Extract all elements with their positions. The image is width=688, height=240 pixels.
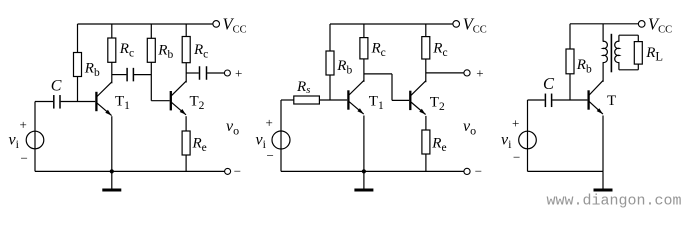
svg-text:Rc: Rc: [193, 42, 208, 61]
ground symbol circuit 3: [602, 171, 604, 189]
wire: T collector up to primary: [602, 62, 604, 82]
transformer primary winding: [602, 24, 604, 42]
wire: vi to Rs: [281, 99, 294, 101]
svg-text:C: C: [51, 78, 62, 95]
capacitor C3 output: [199, 66, 201, 80]
wire: Rc1 to rail: [111, 24, 113, 38]
wire: circuit 3 bottom rail: [528, 170, 604, 172]
svg-text:VCC: VCC: [223, 15, 247, 36]
source vi circuit 3: [519, 131, 537, 149]
resistor Re body circuit 1: [182, 131, 190, 155]
terminal vo- circuit 2: [464, 168, 470, 174]
svg-text:+: +: [235, 66, 242, 81]
ground symbol circuit 2: [363, 171, 365, 189]
transistor T2 circuit 2: [409, 91, 411, 110]
svg-text:T2: T2: [430, 94, 445, 113]
wire: Rb1 top from rail: [77, 24, 79, 53]
capacitor C circuit 3: [544, 94, 546, 108]
wire: Rc2 to rail c2: [425, 24, 427, 37]
wire: output tap: [186, 72, 199, 74]
svg-text:+: +: [20, 117, 27, 132]
wire: Rb1 bottom to base node: [77, 77, 79, 102]
wire: Rb top from rail c3: [569, 24, 571, 49]
resistor Rc2 body circuit 2: [422, 37, 430, 59]
wire: T1 collector up c2: [363, 59, 365, 82]
wire: Re to ground rail: [185, 155, 187, 171]
svg-text:−: −: [267, 148, 274, 163]
resistor Rb2 body: [147, 38, 155, 62]
wire: circuit 1 bottom rail: [35, 170, 225, 172]
terminal VCC circuit 3: [638, 21, 645, 28]
wire: circuit 2 bottom rail: [281, 170, 464, 172]
source vi circuit 1: [26, 131, 44, 149]
wire: RL top drop: [637, 35, 639, 41]
svg-text:vi: vi: [9, 132, 20, 152]
resistor RL body: [634, 42, 642, 65]
wire: T emitter down c3: [602, 116, 604, 172]
terminal vo+ circuit 2: [464, 70, 470, 76]
wire: secondary top to RL: [619, 34, 638, 36]
resistor Rc2 body: [182, 37, 190, 63]
wire: T2 collector up: [185, 63, 187, 83]
wire: vi vertical circuit 1: [34, 102, 36, 172]
wire: to T2 base: [392, 99, 409, 101]
terminal VCC circuit 1: [213, 21, 220, 28]
svg-text:−: −: [234, 164, 241, 179]
svg-text:RL: RL: [645, 45, 663, 64]
wire: down to T2 base level: [391, 74, 393, 101]
svg-text:Rc: Rc: [371, 41, 386, 60]
terminal vo- circuit 1: [225, 168, 231, 174]
svg-text:+: +: [512, 116, 519, 131]
wire: C1 input left wire: [35, 101, 53, 103]
ground symbol circuit 1: [111, 171, 113, 189]
transistor T2 circuit 1: [170, 91, 172, 110]
wire: vi vertical circuit 3: [527, 100, 529, 171]
wire: Rb2 down to T2 base: [150, 62, 152, 100]
resistor Rb body circuit 2: [326, 51, 334, 75]
svg-text:vo: vo: [226, 118, 239, 138]
transistor T circuit 3: [587, 90, 589, 109]
svg-text:T: T: [607, 93, 616, 109]
svg-text:C: C: [543, 74, 555, 93]
wire: vi vertical circuit 2: [280, 100, 282, 171]
resistor Rs body: [294, 96, 320, 104]
svg-text:T1: T1: [115, 94, 130, 113]
wire: Rc1 to rail c2: [363, 24, 365, 38]
wire: T1 emitter down: [111, 116, 113, 171]
wire: circuit 3 VCC top rail: [570, 23, 639, 25]
junction dot T1 emitter at rail: [110, 169, 114, 173]
transformer core: [610, 34, 612, 73]
svg-text:www.diangon.com: www.diangon.com: [547, 193, 682, 210]
capacitor C2 interstage: [126, 68, 128, 82]
svg-text:vi: vi: [256, 132, 267, 152]
resistor Rc1 body circuit 2: [360, 38, 368, 59]
wire: T1 emitter down c2: [363, 116, 365, 172]
junction dot T1 emitter rail c2: [362, 169, 366, 173]
wire: Rc2 to rail: [185, 24, 187, 37]
capacitor C1 input: [53, 95, 55, 109]
wire: Re to rail c2: [425, 154, 427, 171]
wire: circuit 2 VCC top rail: [330, 23, 453, 25]
wire: interstage tap: [112, 74, 127, 76]
svg-text:Re: Re: [431, 135, 446, 154]
wire: base wire to T c3: [552, 99, 587, 101]
svg-text:vo: vo: [463, 118, 476, 138]
wire: Rb bottom to base node c2: [329, 75, 331, 100]
resistor Re body circuit 2: [422, 130, 430, 154]
resistor Rb1 body: [74, 53, 82, 77]
svg-text:−: −: [513, 150, 520, 165]
wire: circuit 1 VCC top rail: [78, 23, 214, 25]
wire: T2 emitter to Re c2: [425, 116, 427, 130]
svg-text:VCC: VCC: [648, 15, 672, 36]
wire: base wire to T2: [151, 100, 169, 102]
wire: output wire c2: [426, 72, 464, 74]
svg-text:Re: Re: [192, 136, 207, 155]
wire: Rb bottom to base node c3: [569, 74, 571, 100]
wire: Rb2 top from rail: [150, 24, 152, 38]
wire: RL bottom to secondary: [619, 69, 638, 71]
wire: base wire to T1: [61, 101, 96, 103]
svg-text:Rs: Rs: [296, 79, 310, 96]
svg-text:−: −: [475, 164, 482, 179]
wire: cap to output terminal: [207, 72, 224, 74]
wire: T2 collector up c2: [425, 59, 427, 82]
svg-text:+: +: [476, 66, 483, 81]
wire: RL bottom drop: [637, 64, 639, 70]
wire: T2 emitter down to Re: [185, 116, 187, 131]
wire: C input left wire c3: [528, 99, 545, 101]
svg-text:−: −: [21, 151, 28, 166]
svg-text:T2: T2: [190, 94, 205, 113]
source vi circuit 2: [272, 131, 290, 149]
svg-text:Rc: Rc: [432, 41, 447, 60]
transistor T1 circuit 2: [347, 90, 349, 109]
svg-text:Rb: Rb: [157, 42, 173, 61]
terminal vo+ circuit 1: [224, 70, 230, 76]
svg-text:T1: T1: [369, 94, 384, 113]
svg-text:Rb: Rb: [84, 61, 100, 80]
wire: collector tap right: [364, 73, 392, 75]
svg-text:Rc: Rc: [119, 41, 134, 60]
svg-text:+: +: [266, 115, 273, 130]
terminal VCC circuit 2: [453, 21, 460, 28]
wire: T1 collector up: [111, 62, 113, 83]
wire: Rs to T1 base: [319, 99, 347, 101]
resistor Rb body circuit 3: [566, 49, 574, 74]
svg-text:vi: vi: [501, 132, 512, 152]
wire: cap to Rb2 node: [134, 74, 151, 76]
svg-text:Rb: Rb: [336, 58, 352, 77]
transistor T1 circuit 1: [95, 92, 97, 111]
svg-text:Rb: Rb: [576, 57, 592, 76]
wire: Rb top from rail c2: [329, 24, 331, 51]
transformer secondary winding: [618, 35, 620, 41]
svg-text:VCC: VCC: [463, 15, 487, 36]
resistor Rc1 body: [108, 38, 116, 62]
